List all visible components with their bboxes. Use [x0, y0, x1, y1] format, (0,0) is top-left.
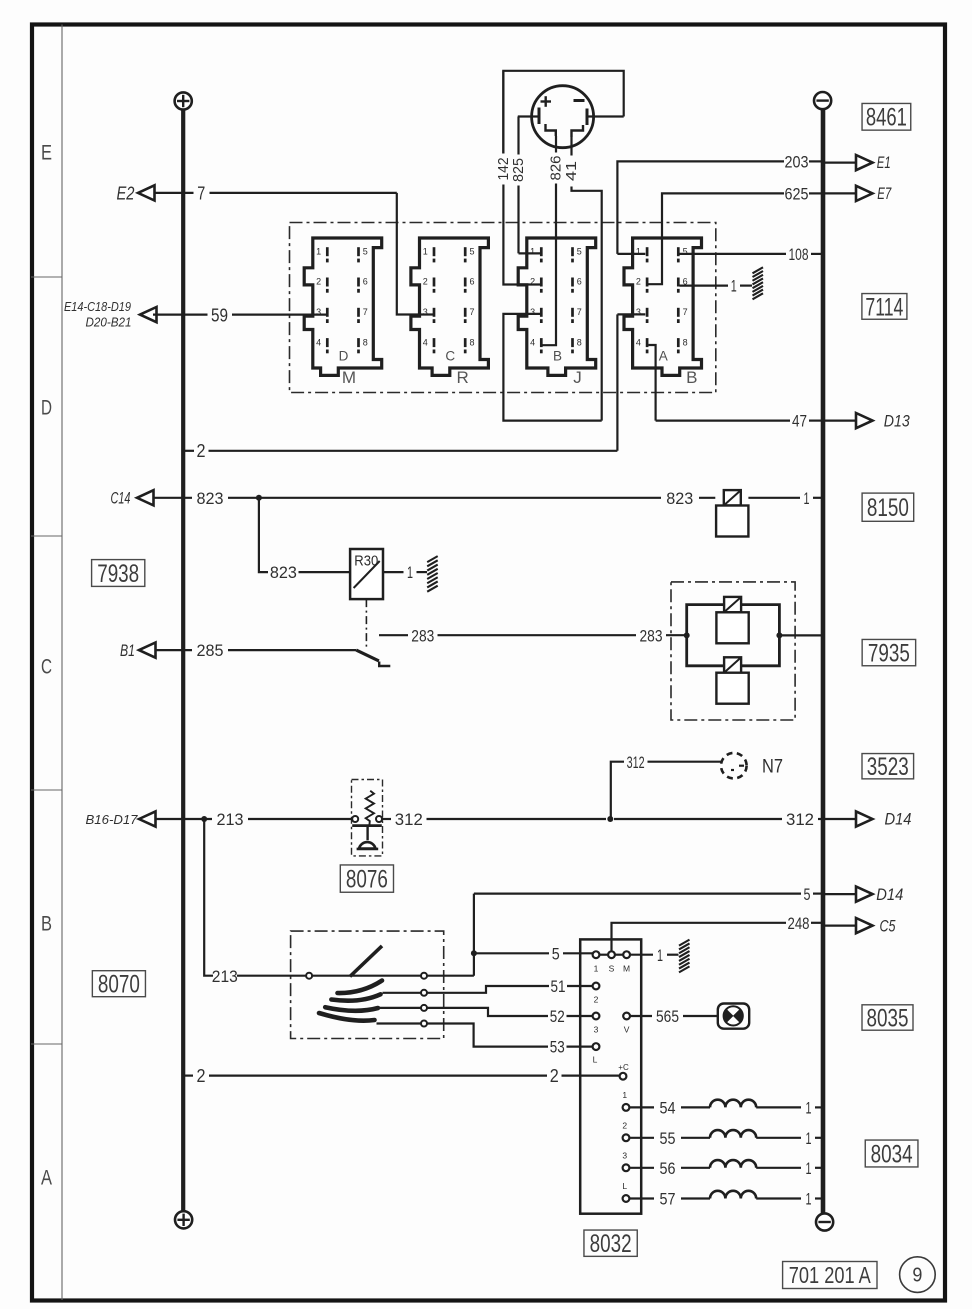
svg-text:L: L — [622, 1181, 627, 1191]
svg-text:2: 2 — [423, 277, 428, 287]
svg-text:565: 565 — [656, 1007, 679, 1026]
svg-text:47: 47 — [792, 412, 807, 431]
svg-text:L: L — [593, 1055, 598, 1065]
svg-text:8461: 8461 — [866, 104, 907, 132]
svg-text:3: 3 — [622, 1150, 627, 1160]
svg-text:B: B — [553, 349, 562, 364]
svg-text:59: 59 — [211, 305, 228, 325]
svg-text:2: 2 — [636, 277, 641, 287]
svg-text:7: 7 — [363, 307, 368, 317]
svg-text:D20-B21: D20-B21 — [86, 316, 132, 330]
svg-text:7: 7 — [577, 307, 582, 317]
svg-text:823: 823 — [270, 563, 297, 582]
svg-text:E: E — [41, 142, 52, 165]
svg-text:8076: 8076 — [346, 865, 388, 893]
svg-text:52: 52 — [550, 1007, 565, 1026]
svg-text:7938: 7938 — [97, 560, 139, 588]
svg-text:53: 53 — [550, 1038, 565, 1057]
svg-text:B1: B1 — [120, 642, 135, 660]
svg-text:D13: D13 — [884, 412, 911, 430]
svg-text:1: 1 — [407, 563, 413, 582]
svg-text:5: 5 — [363, 246, 368, 256]
svg-text:M: M — [342, 368, 356, 387]
svg-text:312: 312 — [395, 810, 423, 829]
svg-text:2: 2 — [622, 1120, 627, 1130]
svg-text:108: 108 — [789, 245, 809, 264]
svg-text:826: 826 — [549, 156, 565, 181]
svg-text:E1: E1 — [877, 154, 891, 172]
svg-text:D14: D14 — [885, 811, 912, 829]
svg-text:2: 2 — [197, 441, 206, 461]
svg-text:57: 57 — [660, 1190, 676, 1209]
svg-text:1: 1 — [804, 489, 810, 508]
svg-text:1: 1 — [316, 246, 321, 256]
svg-text:9: 9 — [912, 1265, 922, 1287]
svg-text:8: 8 — [363, 337, 368, 347]
svg-text:213: 213 — [217, 810, 244, 829]
svg-text:C5: C5 — [880, 917, 897, 935]
svg-text:1: 1 — [622, 1090, 627, 1100]
svg-text:2: 2 — [197, 1066, 206, 1086]
svg-text:4: 4 — [530, 337, 535, 347]
svg-text:823: 823 — [666, 489, 693, 508]
svg-text:1: 1 — [806, 1159, 812, 1178]
svg-text:B: B — [41, 913, 52, 936]
svg-text:8150: 8150 — [867, 494, 909, 522]
svg-text:8: 8 — [469, 337, 474, 347]
svg-text:56: 56 — [660, 1159, 676, 1178]
svg-text:8: 8 — [577, 337, 582, 347]
svg-text:1: 1 — [657, 946, 663, 965]
svg-text:7114: 7114 — [865, 293, 903, 321]
svg-text:3: 3 — [530, 307, 535, 317]
svg-text:285: 285 — [197, 641, 224, 660]
svg-text:41: 41 — [564, 161, 580, 181]
svg-text:248: 248 — [788, 914, 810, 933]
svg-text:C: C — [41, 656, 52, 679]
svg-text:D: D — [41, 397, 52, 420]
svg-text:5: 5 — [804, 885, 811, 904]
svg-text:51: 51 — [551, 977, 566, 996]
svg-text:A: A — [41, 1167, 52, 1190]
svg-text:6: 6 — [363, 277, 368, 287]
svg-text:4: 4 — [423, 337, 428, 347]
svg-text:1: 1 — [423, 246, 428, 256]
svg-text:3523: 3523 — [867, 753, 909, 781]
svg-text:8070: 8070 — [98, 971, 140, 999]
svg-text:6: 6 — [577, 277, 582, 287]
svg-text:7: 7 — [683, 307, 688, 317]
svg-text:E14-C18-D19: E14-C18-D19 — [64, 300, 131, 314]
svg-text:1: 1 — [530, 246, 535, 256]
svg-text:213: 213 — [212, 967, 238, 986]
svg-text:1: 1 — [806, 1099, 812, 1118]
svg-text:6: 6 — [469, 277, 474, 287]
svg-text:4: 4 — [316, 337, 321, 347]
svg-text:1: 1 — [806, 1190, 812, 1209]
svg-text:B: B — [686, 368, 697, 387]
svg-text:283: 283 — [640, 627, 663, 646]
svg-text:203: 203 — [785, 153, 809, 172]
svg-text:A: A — [659, 349, 668, 364]
svg-text:C: C — [445, 349, 455, 364]
svg-text:5: 5 — [552, 944, 560, 963]
svg-text:823: 823 — [197, 489, 224, 508]
svg-text:3: 3 — [594, 1025, 599, 1035]
svg-text:2: 2 — [316, 277, 321, 287]
svg-text:1: 1 — [731, 277, 737, 296]
svg-text:5: 5 — [469, 246, 474, 256]
svg-text:8034: 8034 — [871, 1140, 913, 1168]
svg-text:M: M — [623, 964, 630, 974]
svg-text:E2: E2 — [117, 183, 136, 204]
svg-text:V: V — [624, 1025, 630, 1035]
svg-text:7: 7 — [469, 307, 474, 317]
svg-text:54: 54 — [660, 1099, 676, 1118]
svg-text:5: 5 — [577, 246, 582, 256]
svg-text:8032: 8032 — [590, 1230, 632, 1258]
svg-text:7: 7 — [197, 183, 205, 203]
svg-text:283: 283 — [411, 626, 434, 645]
svg-text:C14: C14 — [111, 490, 131, 508]
svg-text:S: S — [609, 964, 615, 974]
svg-text:4: 4 — [636, 337, 641, 347]
svg-text:+C: +C — [618, 1063, 629, 1072]
svg-text:E7: E7 — [877, 185, 892, 203]
svg-text:825: 825 — [511, 158, 527, 182]
svg-text:8: 8 — [683, 337, 688, 347]
svg-text:J: J — [573, 368, 582, 387]
svg-text:312: 312 — [627, 753, 645, 772]
svg-text:2: 2 — [594, 995, 599, 1005]
svg-text:7935: 7935 — [868, 639, 910, 667]
svg-text:1: 1 — [594, 964, 599, 974]
svg-text:312: 312 — [786, 810, 814, 829]
svg-text:N7: N7 — [762, 757, 783, 778]
svg-text:D14: D14 — [876, 886, 903, 904]
svg-text:55: 55 — [660, 1129, 676, 1148]
svg-text:B16-D17: B16-D17 — [86, 812, 139, 827]
svg-text:D: D — [339, 349, 349, 364]
svg-text:2: 2 — [550, 1066, 559, 1086]
svg-text:701 201 A: 701 201 A — [789, 1262, 872, 1288]
svg-text:8035: 8035 — [867, 1004, 909, 1032]
svg-text:142: 142 — [496, 158, 512, 181]
svg-text:625: 625 — [785, 184, 809, 203]
svg-text:R: R — [457, 368, 469, 387]
svg-text:1: 1 — [806, 1129, 812, 1148]
